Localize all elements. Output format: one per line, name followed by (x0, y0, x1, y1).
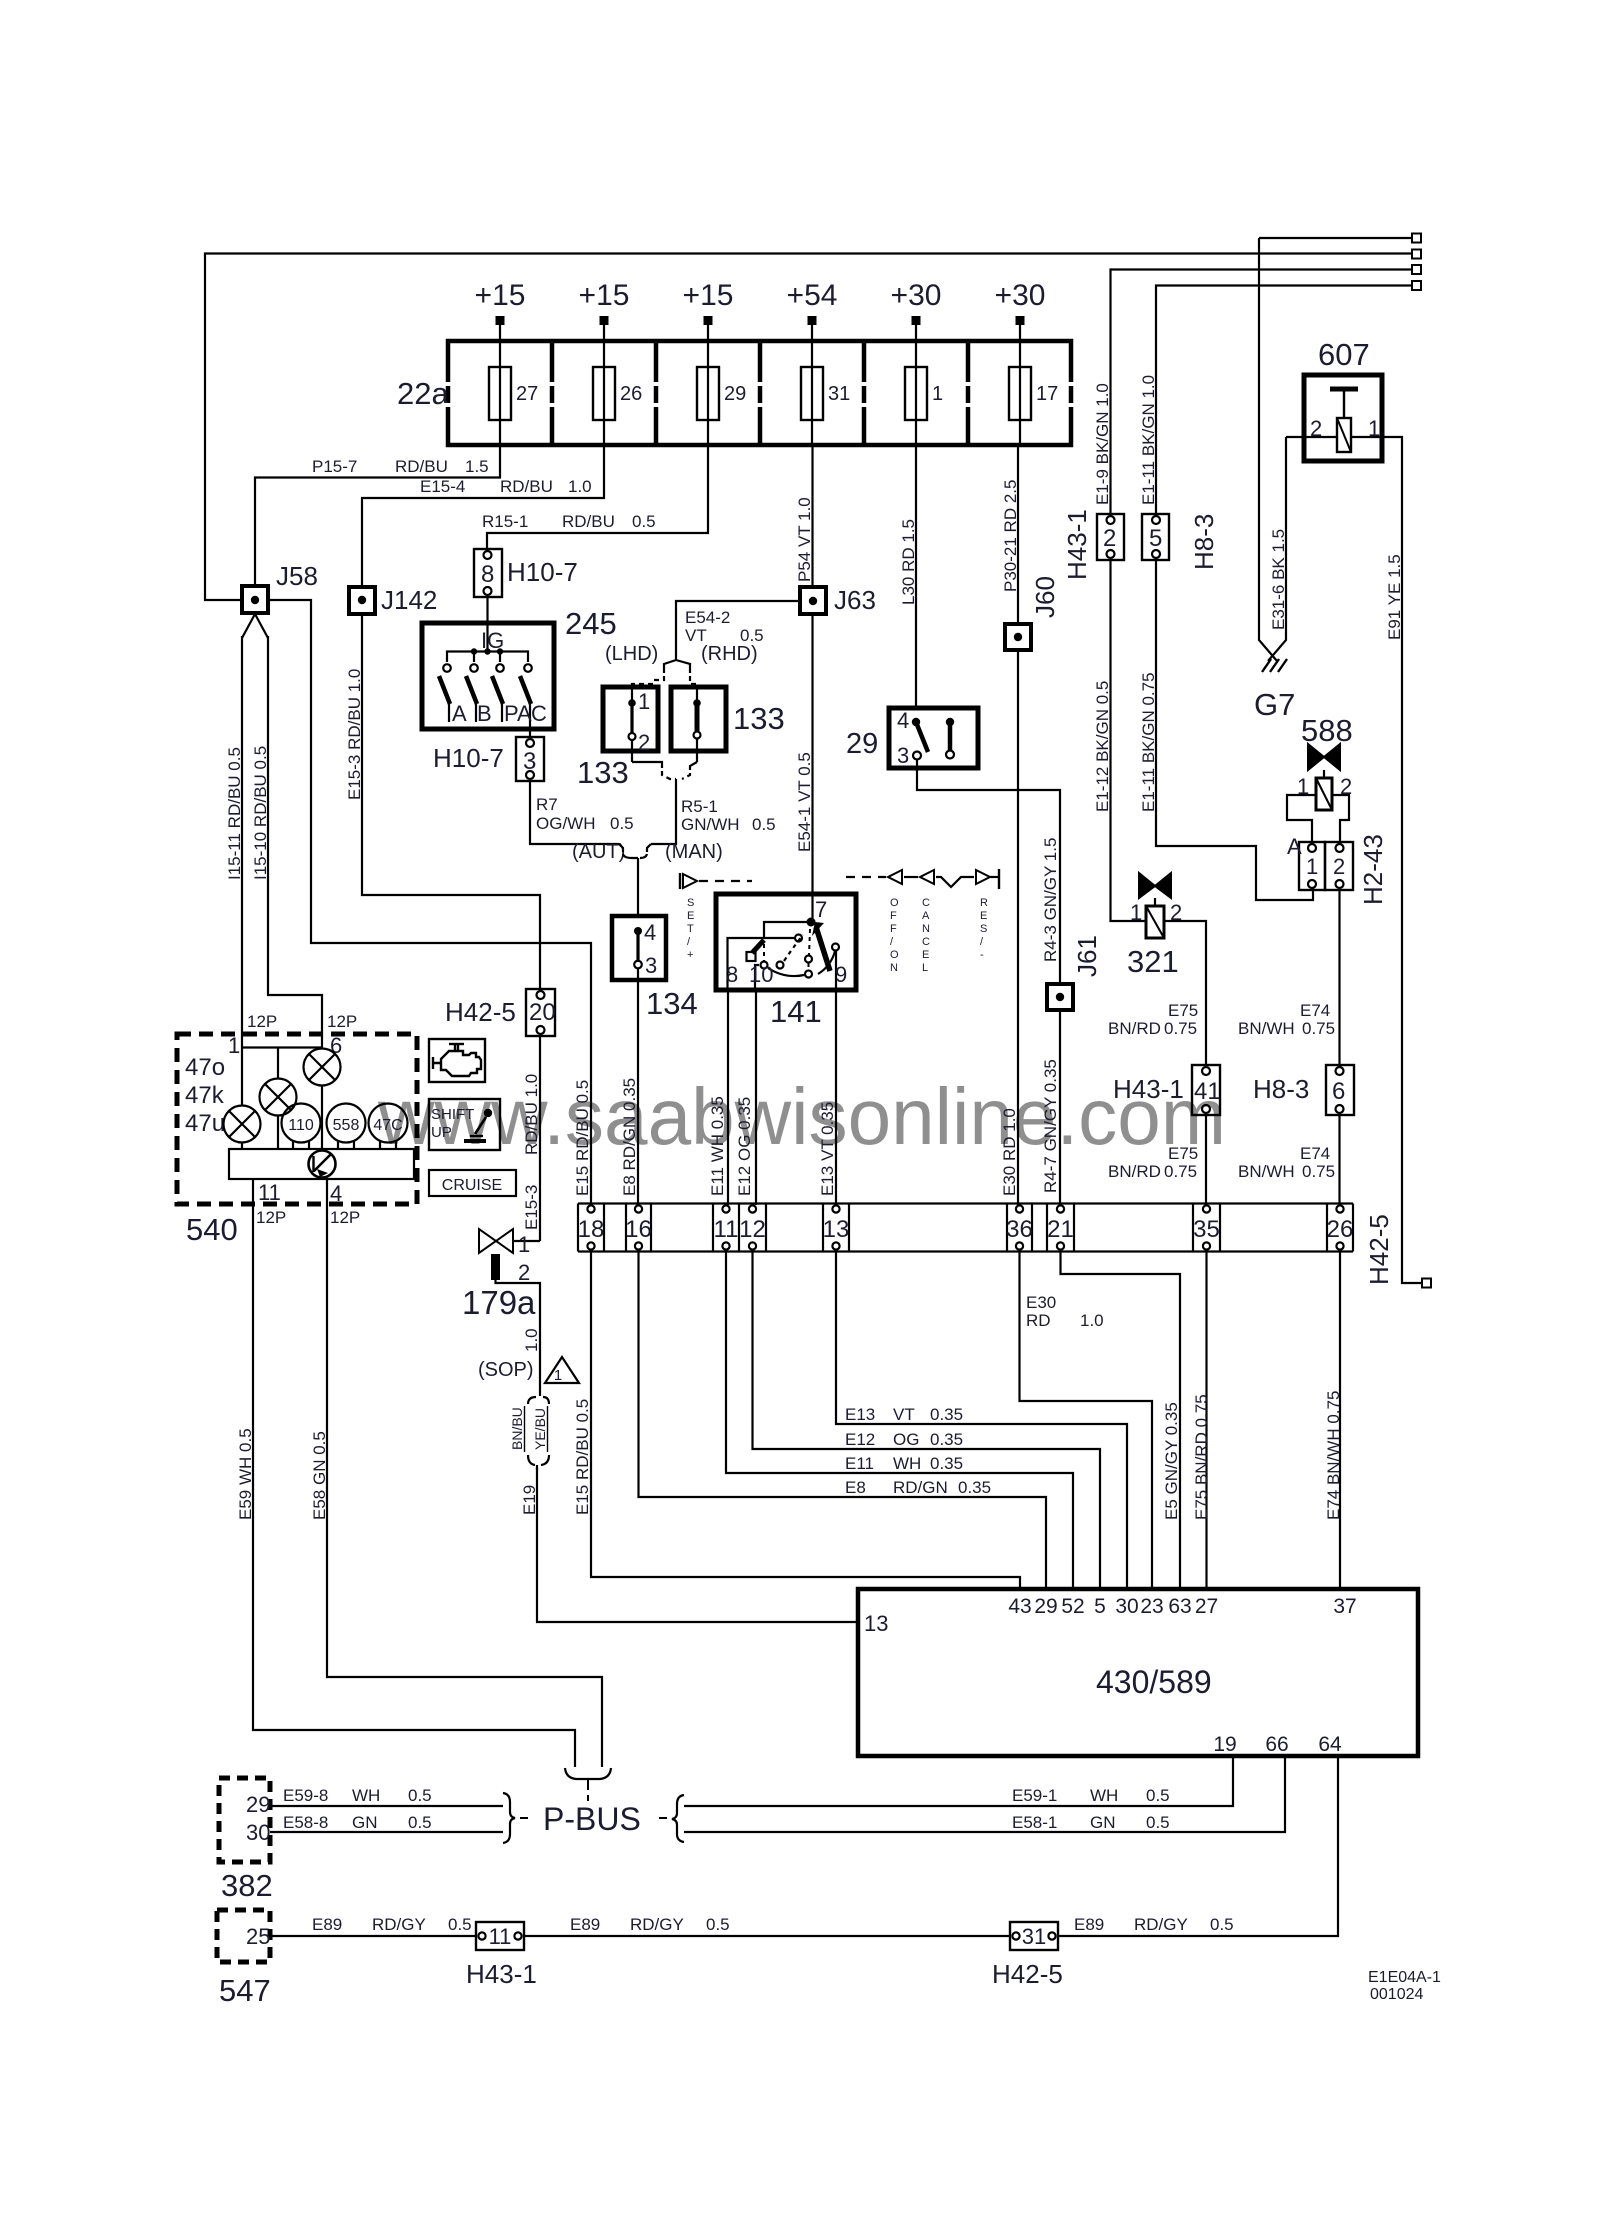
P-BUS right brace (672, 1795, 684, 1842)
540 bus bar (229, 1149, 414, 1179)
merge bracket LHD/RHD to R5-1 (631, 740, 633, 762)
junction J142 (349, 587, 375, 614)
svg-text:P54 VT 1.0: P54 VT 1.0 (795, 497, 814, 582)
svg-text:1.0: 1.0 (1080, 1311, 1104, 1330)
ignition switch 245 contact B (470, 664, 478, 672)
svg-text:E15-3 RD/BU 1.0: E15-3 RD/BU 1.0 (345, 669, 364, 800)
supply terminal square fuse 31 (808, 316, 817, 325)
svg-text:OG/WH: OG/WH (536, 814, 596, 833)
svg-text:0.75: 0.75 (1302, 1019, 1335, 1038)
svg-text:CRUISE: CRUISE (442, 1177, 502, 1194)
wire 179a pin1 (513, 1240, 540, 1242)
svg-text:E59 WH 0.5: E59 WH 0.5 (236, 1428, 255, 1520)
svg-text:0.5: 0.5 (1146, 1813, 1170, 1832)
svg-text:558: 558 (333, 1117, 360, 1134)
fuse 17 (1009, 367, 1031, 420)
svg-text:+: + (687, 949, 693, 961)
svg-text:2: 2 (638, 730, 650, 755)
svg-text:P30-21 RD 2.5: P30-21 RD 2.5 (1001, 480, 1020, 592)
svg-text:H10-7: H10-7 (433, 743, 504, 773)
svg-text:26: 26 (620, 383, 642, 405)
svg-text:+30: +30 (995, 279, 1046, 312)
wire P54 VT 1.0 fuse31 to J63 (811, 445, 813, 587)
svg-text:YE/BU: YE/BU (532, 1408, 548, 1450)
wire 179a pin2 down (496, 1280, 541, 1392)
switch 133 LHD box (603, 687, 658, 751)
connector H43-1 pin 41 (1192, 1065, 1220, 1115)
svg-text:E15 RD/BU 0.5: E15 RD/BU 0.5 (573, 1080, 592, 1196)
svg-text:27: 27 (1195, 1595, 1218, 1618)
svg-text:134: 134 (646, 986, 698, 1021)
svg-text:C: C (922, 897, 930, 909)
wire H10-7 pin8 to 245 (486, 597, 488, 651)
svg-text:UP: UP (431, 1124, 452, 1141)
svg-text:0.5: 0.5 (632, 512, 656, 531)
svg-text:001024: 001024 (1370, 1986, 1423, 2003)
svg-text:E58-8: E58-8 (283, 1813, 328, 1832)
svg-text:0.35: 0.35 (930, 1405, 963, 1424)
supply terminal square fuse 17 (1016, 316, 1025, 325)
svg-text:0.5: 0.5 (610, 814, 634, 833)
svg-text:133: 133 (577, 755, 629, 790)
wire supply to fuse 29 (707, 325, 709, 445)
switch 134 box (612, 916, 666, 980)
wire E1-11 BK/GN 0.75 to H2-43 pin1 (1156, 560, 1313, 900)
connector H43-1 pin 2 (1097, 514, 1124, 560)
wire E54-1 VT 0.5 J63 to 141 pin7 (811, 614, 813, 894)
svg-text:BN/RD: BN/RD (1108, 1162, 1161, 1181)
connector strip H42-5 band (578, 1202, 1353, 1204)
strip cell 35 (1203, 1205, 1210, 1212)
svg-text:179a: 179a (462, 1284, 536, 1321)
svg-text:29: 29 (846, 728, 878, 760)
svg-text:13: 13 (864, 1611, 888, 1636)
valve 321 coil (1146, 906, 1164, 938)
wire 588 pin1 to H2-43 pin1 (1287, 795, 1316, 844)
OFF/ON CANCEL RES dashed arrows (846, 876, 886, 878)
svg-text:12P: 12P (256, 1208, 286, 1227)
wire E12 OG 0.35 141 pin10 to connector 12 (755, 990, 757, 1205)
svg-text:E89: E89 (312, 1915, 342, 1934)
strip cell 21 (1057, 1205, 1064, 1212)
svg-text:H8-3: H8-3 (1189, 514, 1219, 570)
svg-text:H10-7: H10-7 (507, 557, 578, 587)
svg-text:J61: J61 (1072, 935, 1102, 977)
wire E58 GN 0.5 540 pin4 to P-BUS (327, 1204, 602, 1767)
svg-text:S: S (687, 897, 694, 909)
svg-text:O: O (890, 949, 899, 961)
cruise switch 141 pin8 wire and contact (728, 938, 795, 990)
svg-text:1: 1 (1306, 854, 1318, 879)
cruise switch 141 right contact (832, 944, 839, 951)
wire R5-1 GN/WH 0.5 to MAN (651, 779, 676, 844)
wire E11 WH 0.35 141 pin8 to connector 11 (727, 990, 729, 1205)
svg-text:BN/WH: BN/WH (1238, 1019, 1295, 1038)
svg-text:N: N (922, 923, 930, 935)
alternative wire split BN/BU YE/BU (528, 1392, 549, 1404)
supply terminal square fuse 29 (704, 316, 713, 325)
svg-text:E58 GN 0.5: E58 GN 0.5 (310, 1431, 329, 1520)
connector 382 dashed box (219, 1778, 270, 1862)
fuse box divider 2 (654, 341, 659, 382)
valve 179a actuator bar (491, 1254, 500, 1280)
cruise switch 141 pivot and blade (811, 894, 813, 920)
svg-text:E74: E74 (1300, 1001, 1330, 1020)
svg-text:63: 63 (1168, 1595, 1191, 1618)
gauge 558 (327, 1104, 366, 1143)
svg-text:5: 5 (1094, 1595, 1106, 1618)
svg-text:41: 41 (1194, 1078, 1221, 1105)
junction J58 (242, 586, 268, 613)
svg-text:0.75: 0.75 (1164, 1019, 1197, 1038)
wire P30-21 RD 2.5 fuse17 to J60 (1017, 445, 1019, 624)
fuse 26 (593, 367, 615, 420)
svg-text:E75: E75 (1168, 1144, 1198, 1163)
svg-text:RD/BU: RD/BU (395, 457, 448, 476)
svg-text:141: 141 (770, 994, 822, 1029)
svg-text:I15-10 RD/BU 0.5: I15-10 RD/BU 0.5 (251, 746, 270, 880)
svg-text:E1-9 BK/GN 1.0: E1-9 BK/GN 1.0 (1093, 383, 1112, 505)
connector H10-7 pin 3 (516, 737, 544, 781)
svg-text:E5 GN/GY 0.35: E5 GN/GY 0.35 (1162, 1402, 1181, 1520)
wire E75 BN/RD 0.75 cell35 to pin27 (1205, 1252, 1207, 1590)
wire top line 4 E1-11 feed (1156, 286, 1414, 515)
wire I15-11 RD/BU 0.5 J58 to 540 pin1 (241, 636, 243, 1034)
svg-text:245: 245 (565, 606, 617, 641)
svg-text:RD/BU: RD/BU (562, 512, 615, 531)
fuse 1 (905, 367, 927, 420)
svg-text:E1E04A-1: E1E04A-1 (1368, 1969, 1441, 1986)
540 clock symbol (309, 1151, 336, 1178)
svg-text:3: 3 (645, 953, 657, 978)
ignition switch 245 contact PA (496, 664, 504, 672)
svg-text:17: 17 (1036, 383, 1058, 405)
svg-text:0.5: 0.5 (408, 1813, 432, 1832)
wire supply to fuse 31 (811, 325, 813, 445)
svg-text:P15-7: P15-7 (312, 457, 357, 476)
svg-text:26: 26 (1327, 1216, 1354, 1243)
svg-text:30: 30 (246, 1820, 270, 1845)
svg-text:0.5: 0.5 (448, 1915, 472, 1934)
svg-text:E58-1: E58-1 (1012, 1813, 1057, 1832)
wire E11 WH 0.35 cell11 to pin52 (726, 1252, 1073, 1590)
svg-text:WH: WH (352, 1786, 380, 1805)
svg-text:30: 30 (1115, 1595, 1138, 1618)
switch 133 RHD contacts (696, 688, 698, 702)
switch 133 LHD contacts (631, 688, 633, 702)
svg-text:2: 2 (518, 1260, 530, 1285)
wires lamps to bus bar (241, 1142, 243, 1149)
cruise switch 141 dashed center (809, 929, 810, 956)
wire E30 RD 1.0 J60 to connector 36 (1017, 650, 1019, 1205)
wire E8 RD/GN 0.35 cell16 to pin29 (639, 1252, 1047, 1590)
svg-text:66: 66 (1265, 1733, 1288, 1756)
svg-text:H42-5: H42-5 (992, 1959, 1063, 1989)
svg-text:1.0: 1.0 (568, 477, 592, 496)
lamp 47u (224, 1106, 261, 1143)
svg-text:5: 5 (1149, 525, 1162, 552)
svg-text:WH: WH (893, 1454, 921, 1473)
supply terminal square fuse 26 (600, 316, 609, 325)
wire E54-2 VT 0.5 from J63 (676, 601, 800, 660)
strip cell 16 (635, 1205, 642, 1212)
svg-text:22a: 22a (397, 376, 449, 411)
svg-text:0.5: 0.5 (1210, 1915, 1234, 1934)
svg-text:F: F (890, 923, 897, 935)
svg-text:E15-4: E15-4 (420, 477, 465, 496)
wire E30 RD 1.0 cell36 to pin23 (1020, 1252, 1153, 1590)
svg-text:E74 BN/WH 0.75: E74 BN/WH 0.75 (1324, 1391, 1343, 1520)
svg-text:11: 11 (258, 1180, 281, 1205)
svg-text:SHIFT: SHIFT (431, 1106, 474, 1123)
svg-text:547: 547 (219, 1973, 271, 2008)
wire top frame from J58 to terminal (205, 254, 1414, 601)
svg-text:7: 7 (815, 897, 827, 922)
terminal square top line 4 (1412, 281, 1421, 290)
svg-text:1.0: 1.0 (522, 1328, 541, 1352)
svg-text:47o: 47o (185, 1054, 225, 1081)
connector H42-5 pin 20 (526, 989, 555, 1036)
svg-text:4: 4 (330, 1181, 342, 1206)
svg-text:382: 382 (221, 1868, 273, 1903)
strip cell 18 (587, 1205, 594, 1212)
svg-text:RD/BU 1.0: RD/BU 1.0 (522, 1074, 541, 1155)
svg-text:RD/GN: RD/GN (893, 1478, 948, 1497)
svg-text:P-BUS: P-BUS (543, 1801, 641, 1837)
svg-text:H2-43: H2-43 (1358, 834, 1388, 905)
wire supply to fuse 27 (499, 325, 501, 445)
svg-text:E19: E19 (520, 1485, 539, 1515)
svg-text:12P: 12P (247, 1012, 277, 1031)
svg-text:+30: +30 (891, 279, 942, 312)
svg-text:+15: +15 (683, 279, 734, 312)
svg-text:BN/BU: BN/BU (509, 1407, 525, 1450)
svg-text:13: 13 (823, 1216, 850, 1243)
wire supply to fuse 1 (915, 325, 917, 445)
svg-text:(MAN): (MAN) (665, 841, 723, 863)
svg-text:0.75: 0.75 (1164, 1162, 1197, 1181)
relay 607 armature (1330, 387, 1358, 392)
connector H8-3 pin 5 (1142, 514, 1169, 560)
cruise switch 141 left contact blade (764, 922, 811, 939)
wire L30 RD 1.5 fuse1 to switch 29 (915, 445, 917, 708)
wire R7 OG/WH 0.5 to AUT (530, 781, 619, 844)
svg-text:B: B (477, 701, 492, 726)
wire J58 right branch to connector 18 (268, 600, 591, 1205)
terminal square top line 2 (1412, 250, 1421, 259)
wire top line 3 E1-9 feed (1111, 270, 1415, 515)
svg-text:E8: E8 (845, 1478, 866, 1497)
svg-text:C: C (531, 701, 547, 726)
svg-text:R15-1: R15-1 (482, 512, 528, 531)
svg-text:8: 8 (481, 561, 494, 588)
svg-text:430/589: 430/589 (1096, 1664, 1212, 1700)
svg-text:E54-1 VT 0.5: E54-1 VT 0.5 (795, 752, 814, 852)
svg-text:64: 64 (1318, 1733, 1342, 1756)
svg-text:E15 RD/BU 0.5: E15 RD/BU 0.5 (573, 1399, 592, 1515)
svg-text:E30 RD 1.0: E30 RD 1.0 (1000, 1108, 1019, 1196)
svg-text:N: N (890, 962, 898, 974)
wire E58-8 GN 0.5 (270, 1831, 503, 1833)
wire R4-7 GN/GY 0.35 J61 to connector 21 (1059, 1010, 1061, 1205)
wire 607 pin2 lead (1286, 436, 1337, 438)
svg-text:E89: E89 (1074, 1915, 1104, 1934)
svg-text:J60: J60 (1030, 576, 1060, 618)
svg-text:RD/BU: RD/BU (500, 477, 553, 496)
svg-text:J63: J63 (834, 585, 876, 615)
wire E8 RD/GN 0.35 switch134 to connector 16 (637, 969, 639, 1205)
svg-text:GN: GN (352, 1813, 378, 1832)
cruise symbol box (429, 1170, 516, 1196)
terminal square top line 3 (1412, 265, 1421, 274)
svg-text:S: S (980, 923, 987, 935)
wire E15-3 RD/BU 1.0 J142 to H42-5 pin20 (362, 614, 540, 989)
svg-text:GN/WH: GN/WH (681, 815, 740, 834)
svg-text:1.5: 1.5 (465, 457, 489, 476)
svg-text:0.35: 0.35 (930, 1454, 963, 1473)
svg-text:27: 27 (516, 383, 538, 405)
junction J60 (1005, 624, 1031, 650)
svg-text:+54: +54 (787, 279, 838, 312)
svg-text:+15: +15 (579, 279, 630, 312)
svg-text:RD: RD (1026, 1311, 1051, 1330)
svg-text:1: 1 (228, 1033, 240, 1058)
svg-text:16: 16 (625, 1216, 652, 1243)
svg-text:21: 21 (1047, 1216, 1074, 1243)
svg-text:11: 11 (714, 1216, 739, 1243)
svg-text:E11: E11 (845, 1454, 874, 1473)
wire E89 RD/GY 0.5 segment 3 to ECU pin64 (1058, 1756, 1338, 1936)
svg-text:37: 37 (1333, 1595, 1356, 1618)
svg-text:1: 1 (932, 383, 943, 405)
svg-text:H42-5: H42-5 (445, 997, 516, 1027)
wire supply to fuse 26 (603, 325, 605, 445)
svg-text:VT: VT (893, 1405, 915, 1424)
fuse box divider 5 (966, 341, 971, 382)
wire E59 WH 0.5 540 pin11 to P-BUS (253, 1204, 575, 1767)
svg-text:R4-3 GN/GY 1.5: R4-3 GN/GY 1.5 (1041, 838, 1060, 962)
svg-text:0.5: 0.5 (706, 1915, 730, 1934)
svg-text:(AUT): (AUT) (572, 841, 625, 863)
svg-text:52: 52 (1061, 1595, 1084, 1618)
svg-text:R4-7 GN/GY 0.35: R4-7 GN/GY 0.35 (1041, 1059, 1060, 1193)
wire E19 to 430/589 pin13 (537, 1468, 858, 1622)
svg-text:20: 20 (529, 999, 556, 1026)
ignition switch 245 internal bus (447, 652, 528, 663)
svg-text:12: 12 (739, 1216, 766, 1243)
svg-text:OG: OG (893, 1430, 919, 1449)
svg-text:R7: R7 (536, 795, 558, 814)
wire P15-7 RD/BU 1.5 fuse27 to J58 (255, 445, 500, 586)
instrument 540 dashed box (177, 1034, 417, 1204)
fuse 29 (697, 367, 719, 420)
gauge 110 (282, 1104, 321, 1143)
wire I15-10 RD/BU 0.5 J58 to 540 pin6 (268, 636, 322, 1034)
svg-text:3: 3 (523, 748, 536, 775)
svg-text:PA: PA (504, 701, 532, 726)
wire R15-1 RD/BU 0.5 fuse29 to H10-7 pin8 (487, 445, 708, 549)
ignition switch 245 contact A (443, 664, 451, 672)
svg-text:31: 31 (828, 383, 850, 405)
svg-text:0.5: 0.5 (752, 815, 776, 834)
svg-text:BN/WH: BN/WH (1238, 1162, 1295, 1181)
terminal square top line 1 (1412, 234, 1421, 243)
svg-text:F: F (890, 910, 897, 922)
strip cell 13 (832, 1205, 839, 1212)
strip cell 36 (1016, 1205, 1023, 1212)
svg-text:588: 588 (1301, 713, 1353, 748)
svg-text:0.35: 0.35 (958, 1478, 991, 1497)
connector H42-5 pin 31 inline (1010, 1922, 1058, 1950)
connector H43-1 pin 11 inline (476, 1922, 524, 1950)
wire E74 BN/WH 0.75 cell26 to pin37 (1339, 1252, 1341, 1590)
split bracket E54-2 to LHD/RHD (664, 660, 676, 673)
svg-text:47k: 47k (185, 1082, 225, 1109)
wire E59-1 WH 0.5 to ECU pin19 (684, 1756, 1233, 1806)
svg-text:H42-5: H42-5 (1364, 1214, 1394, 1285)
svg-text:E12 OG 0.35: E12 OG 0.35 (735, 1097, 754, 1196)
svg-text:47u: 47u (185, 1110, 225, 1137)
svg-text:31: 31 (1022, 1924, 1046, 1949)
wire E58-1 GN 0.5 to ECU pin66 (684, 1756, 1285, 1832)
switch 29 box (889, 708, 978, 768)
svg-text:6: 6 (1332, 1078, 1345, 1105)
supply terminal square fuse 1 (912, 316, 921, 325)
svg-text:E13: E13 (845, 1405, 875, 1424)
junction J61 (1047, 984, 1073, 1010)
svg-text:1: 1 (518, 1232, 530, 1257)
wire E74 BN/WH 0.75 H2-43 pin2 to H8-3 pin6 (1338, 888, 1340, 1065)
svg-text:E30: E30 (1026, 1293, 1056, 1312)
wire RD/BU 1.0 pin20 down (539, 1036, 541, 1241)
svg-text:E59-1: E59-1 (1012, 1786, 1057, 1805)
svg-text:E8 RD/GN 0.35: E8 RD/GN 0.35 (620, 1078, 639, 1196)
fuse box divider 4 (862, 341, 867, 382)
connector 547 dashed box (217, 1910, 270, 1962)
wire E59-8 WH 0.5 (270, 1805, 503, 1807)
ground G7 symbol (1262, 659, 1271, 672)
svg-text:10: 10 (749, 962, 773, 987)
svg-text:E89: E89 (570, 1915, 600, 1934)
svg-text:29: 29 (246, 1792, 270, 1817)
svg-text:2: 2 (1333, 854, 1345, 879)
svg-text:0.35: 0.35 (930, 1430, 963, 1449)
cruise switch 141 box (716, 894, 856, 990)
svg-text:607: 607 (1318, 337, 1370, 372)
svg-text:J142: J142 (381, 585, 437, 615)
svg-text:E1-11 BK/GN 1.0: E1-11 BK/GN 1.0 (1139, 375, 1158, 505)
svg-text:E11 WH 0.35: E11 WH 0.35 (708, 1096, 727, 1196)
svg-text:(SOP): (SOP) (478, 1359, 534, 1381)
svg-text:321: 321 (1127, 944, 1179, 979)
svg-text:E15-3: E15-3 (522, 1185, 541, 1230)
P-BUS left brace (503, 1793, 515, 1843)
svg-text:E54-2: E54-2 (685, 608, 730, 627)
svg-text:O: O (890, 897, 899, 909)
fuse 27 (489, 367, 511, 420)
svg-text:25: 25 (246, 1924, 270, 1949)
svg-text:E13 VT 0.35: E13 VT 0.35 (818, 1102, 837, 1196)
wire E15-4 RD/BU 1.0 fuse26 to J142 (362, 445, 604, 587)
svg-text:4: 4 (897, 708, 909, 733)
svg-text:H43-1: H43-1 (466, 1959, 537, 1989)
svg-text:133: 133 (733, 701, 785, 736)
svg-text:C: C (922, 936, 930, 948)
svg-text:0.5: 0.5 (408, 1786, 432, 1805)
SET+ dashed arrow (679, 873, 681, 889)
connector H10-7 pin 8 (474, 549, 502, 597)
wire 321 pin2 to H43-1 pin41 (1164, 921, 1206, 1065)
